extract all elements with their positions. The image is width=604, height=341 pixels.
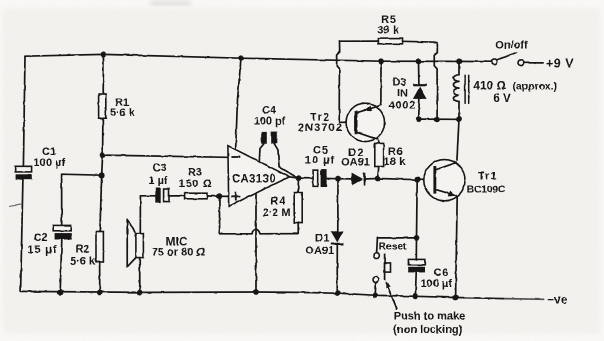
transistor Q1 Tr1	[424, 160, 506, 201]
wire R2 bottom	[99, 262, 101, 293]
svg-text:+9 V: +9 V	[546, 57, 574, 71]
svg-text:R3: R3	[188, 167, 202, 179]
scan artifact dash left margin	[9, 205, 21, 207]
wire D1 bottom	[336, 245, 338, 293]
wire left branch upper (C1 top)	[23, 56, 25, 166]
node non-inverting input	[217, 193, 223, 199]
resistor R1	[99, 94, 136, 119]
svg-text:1 µf: 1 µf	[148, 175, 168, 187]
resistor R2	[70, 232, 103, 268]
wire switch to +9V	[524, 62, 544, 64]
svg-text:100 µf: 100 µf	[420, 278, 452, 290]
wire Tr1 emitter to 0V rail	[456, 196, 458, 297]
svg-text:−ve: −ve	[547, 295, 567, 307]
node rail C2	[57, 289, 63, 295]
svg-text:150 Ω: 150 Ω	[179, 178, 213, 190]
wire bottom 0V rail	[21, 291, 487, 298]
wire Tr2 emitter to rail	[380, 61, 382, 104]
microphone MIC	[127, 219, 205, 267]
wire C3 to R3	[169, 195, 185, 197]
svg-text:Tr1: Tr1	[478, 171, 498, 183]
wire D1 branch	[337, 179, 339, 232]
svg-text:OA91: OA91	[305, 245, 334, 257]
wire R1 top	[102, 54, 104, 94]
node top D3	[416, 58, 422, 64]
node coil bottom	[456, 116, 462, 122]
wire R5 right leg with hop over rail	[434, 42, 437, 119]
label push to make arrow	[386, 281, 466, 336]
wire reset branch	[377, 238, 417, 253]
wire R3 to non-inverting input	[207, 195, 228, 197]
wire R1 bottom to junctions	[100, 118, 103, 231]
wire D3 bottom	[418, 99, 421, 119]
wire node C down to reset/C6 junction	[416, 180, 419, 238]
wire Tr1 collector	[457, 119, 459, 160]
wire inverting input	[103, 155, 228, 157]
svg-text:100 pf: 100 pf	[254, 116, 286, 128]
svg-text:5·6 k: 5·6 k	[110, 107, 136, 119]
node top Tr2 emitter	[378, 58, 384, 64]
wire left branch lower (C1 bottom to 0V rail)	[21, 180, 23, 292]
wire bottom rail faded end	[487, 297, 503, 299]
wire D3 top	[418, 61, 420, 84]
diode D1	[305, 231, 344, 257]
node A D1 branch	[335, 176, 341, 182]
wire node C to Tr1 base	[417, 179, 433, 181]
wire R6 top to Tr2 collector	[378, 141, 381, 144]
diode D2	[341, 147, 370, 186]
wire MIC to C3	[140, 196, 155, 234]
resistor R6	[375, 143, 406, 168]
node B R6 bottom	[375, 176, 381, 182]
svg-text:18 k: 18 k	[384, 156, 406, 168]
svg-text:C3: C3	[152, 162, 166, 174]
node rail D1	[335, 290, 341, 296]
wire R5 left leg with hop over rail, down to Tr2 base	[337, 41, 355, 122]
svg-text:75 or 80 Ω: 75 or 80 Ω	[152, 247, 206, 259]
svg-text:R2: R2	[75, 244, 89, 256]
node C Tr1 base	[414, 177, 420, 183]
node top coil	[456, 59, 462, 65]
svg-text:D1: D1	[315, 232, 330, 244]
capacitor C4	[254, 105, 286, 144]
wire collector node horizontal	[419, 118, 459, 120]
svg-text:(non locking): (non locking)	[393, 324, 462, 336]
wire output to C5	[289, 177, 313, 179]
svg-text:39 k: 39 k	[377, 25, 399, 37]
wire C2 top branch	[62, 174, 102, 225]
capacitor C3	[148, 162, 169, 203]
wire op-amp V- to 0V rail	[255, 193, 257, 292]
node R5 right bottom	[434, 116, 440, 122]
svg-text:OA91: OA91	[341, 157, 370, 169]
wire relay coil top	[458, 61, 460, 74]
resistor R4	[262, 193, 302, 223]
wire op-amp V+ from rail	[236, 58, 241, 150]
transistor Q2 Tr2	[298, 103, 385, 141]
node top R1	[101, 52, 107, 58]
svg-text:BC109C: BC109C	[467, 184, 506, 196]
switch S1 on/off	[492, 40, 529, 66]
node C2 branch	[99, 172, 105, 178]
svg-text:10 µf: 10 µf	[305, 155, 335, 167]
wire reset bottom	[374, 283, 377, 296]
wire C5 to node A	[327, 178, 352, 180]
resistor R3	[179, 167, 213, 199]
svg-text:On/off: On/off	[495, 40, 528, 52]
svg-text:Reset: Reset	[379, 242, 408, 253]
wire feedback with hop over V- wire	[219, 196, 298, 234]
wire R4 top	[297, 178, 299, 192]
node rail reset	[372, 293, 378, 299]
diode D3	[388, 77, 426, 112]
op-amp U1 CA3130	[228, 146, 290, 207]
scan smudge top	[150, 1, 191, 6]
wire top +9V rail	[25, 54, 492, 61]
svg-text:5·6 k: 5·6 k	[70, 256, 96, 268]
capacitor C2	[27, 225, 71, 256]
resistor R5	[340, 14, 438, 44]
wire C6 bottom	[414, 272, 417, 296]
wire C2 bottom	[60, 240, 62, 293]
svg-text:410 Ω: 410 Ω	[473, 79, 506, 93]
svg-text:(approx.): (approx.)	[512, 82, 556, 93]
svg-text:2·2 M: 2·2 M	[262, 207, 290, 219]
svg-text:CA3130: CA3130	[232, 174, 276, 186]
svg-text:15 µf: 15 µf	[27, 244, 57, 256]
svg-text:IN: IN	[397, 88, 408, 100]
node opamp output	[296, 175, 302, 181]
node rail Tr1 emitter	[453, 295, 459, 301]
node D3 bottom	[416, 116, 422, 122]
node rail V-	[253, 289, 259, 295]
wire C6 top	[415, 238, 417, 260]
relay coil 410 ohm	[453, 75, 556, 105]
wire node B to R6	[378, 167, 379, 179]
svg-text:6 V: 6 V	[493, 93, 511, 105]
node rail R2	[97, 290, 103, 296]
svg-text:C2: C2	[33, 232, 47, 244]
svg-text:R4: R4	[270, 196, 286, 208]
node reset C6 junction	[414, 235, 420, 241]
node rail MIC	[137, 290, 143, 296]
svg-text:100 µf: 100 µf	[34, 157, 66, 169]
capacitor C6	[408, 259, 452, 290]
wire coil bottom	[458, 102, 460, 120]
wire MIC bottom	[139, 258, 141, 293]
wire C4 left lead	[259, 144, 264, 162]
node inverting input	[100, 152, 106, 158]
svg-text:4002: 4002	[388, 100, 416, 112]
wire D2 cathode to node B	[364, 178, 377, 181]
svg-text:2N3702: 2N3702	[298, 122, 343, 134]
switch S2 reset push-button	[373, 242, 407, 283]
node top opamp V+	[238, 55, 244, 61]
capacitor C5	[305, 145, 335, 188]
node rail C6	[413, 293, 419, 299]
wire node B to node C	[378, 179, 418, 180]
capacitor C1	[15, 146, 65, 180]
wire C4 right lead to output	[274, 143, 298, 178]
svg-text:Push to make: Push to make	[394, 311, 466, 323]
